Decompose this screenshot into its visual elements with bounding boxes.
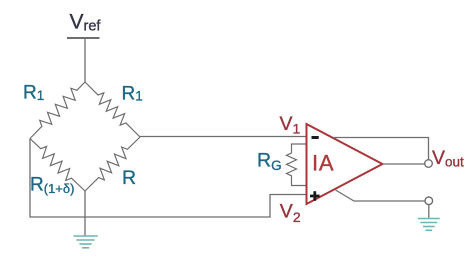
ground (bridge, bottom) [73, 236, 97, 248]
wire V1: bridge right node to IA inverting input [140, 136, 307, 138]
resistor RG with stubs to IA gain pins [287, 144, 307, 186]
svg-text:IA: IA [312, 150, 334, 175]
svg-text:R: R [122, 167, 136, 189]
Vref supply bar [67, 37, 100, 39]
plus sign (non-inverting input) [310, 191, 320, 201]
wire reference pin to ground terminal [336, 190, 426, 201]
resistor R(1+d) (bottom-left bridge arm) [30, 139, 85, 192]
resistor R (bottom-right bridge arm) [85, 137, 140, 191]
wire sense/feedback: top edge to Vout node [333, 138, 429, 160]
wire bridge bottom node to ground [84, 191, 86, 236]
wire V2: bridge left node down, along bottom, up to IA non-inverting input [30, 139, 307, 218]
op-amp IA (instrumentation amplifier triangle) [307, 124, 383, 204]
minus sign (inverting input) [312, 136, 319, 139]
resistor R1 (top-right bridge arm) [85, 82, 140, 137]
node reference terminal [425, 197, 433, 205]
node Vout terminal [425, 160, 433, 168]
ground (reference, right) [418, 219, 440, 231]
wire reference terminal to ground [428, 205, 430, 218]
wire output: apex to Vout terminal [383, 163, 425, 165]
wire Vref stem to bridge top node [84, 38, 86, 82]
resistor R1 (top-left bridge arm) [30, 82, 85, 139]
